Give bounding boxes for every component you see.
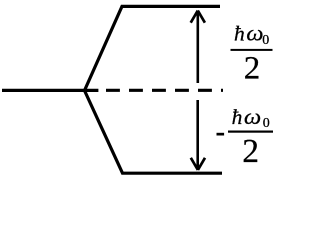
wire upper branch to top level: [85, 6, 221, 90]
svg-text:0: 0: [262, 33, 269, 48]
svg-text:ω: ω: [244, 104, 261, 129]
svg-text:0: 0: [263, 116, 270, 131]
svg-text:ω: ω: [246, 21, 263, 46]
wire dashed zero-energy line: [106, 89, 223, 92]
node up arrow head right barb: [198, 11, 205, 23]
svg-text:ħ: ħ: [234, 22, 245, 46]
wire lower branch to bottom level: [85, 91, 223, 174]
node upper fraction bar: [231, 49, 273, 51]
svg-text:2: 2: [242, 133, 259, 170]
node down arrow head left barb: [191, 158, 198, 170]
node down arrow shaft: [196, 100, 199, 169]
energy level splitting diagram: [0, 0, 284, 183]
svg-text:ħ: ħ: [232, 105, 243, 129]
node lower fraction bar: [228, 131, 273, 133]
wire left center level line: [2, 89, 98, 92]
svg-text:2: 2: [244, 51, 261, 87]
node down arrow head right barb: [198, 158, 205, 170]
node up arrow head left barb: [191, 11, 198, 23]
node lower label minus sign: [217, 133, 225, 136]
node up arrow shaft: [197, 12, 200, 83]
